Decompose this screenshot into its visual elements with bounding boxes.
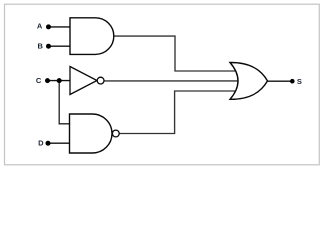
svg-text:A: A (37, 22, 43, 31)
svg-text:B: B (38, 41, 44, 50)
svg-text:D: D (38, 138, 44, 147)
svg-text:S: S (297, 77, 302, 86)
svg-text:C: C (36, 76, 42, 85)
